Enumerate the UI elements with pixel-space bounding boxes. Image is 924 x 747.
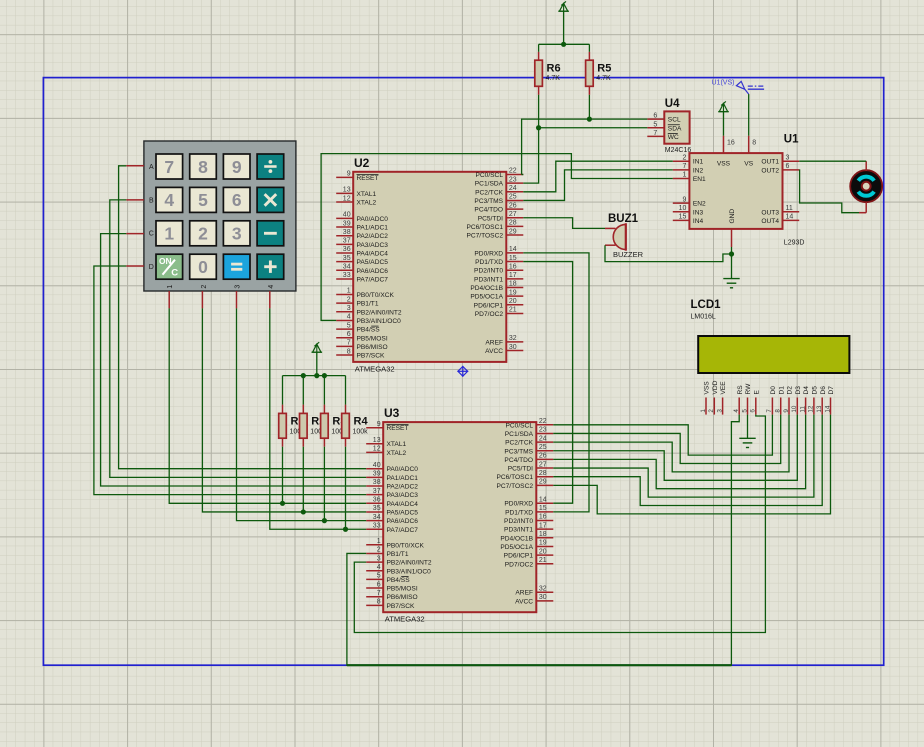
U3 pin 13 (XTAL1) (366, 437, 406, 448)
svg-text:VS: VS (744, 161, 753, 168)
svg-text:12: 12 (808, 405, 815, 413)
IC U2 ATMEGA32 body (353, 156, 506, 374)
U2 pin 37 (PA3/ADC3) (336, 238, 388, 249)
U3 pin 39 (PA1/ADC1) (366, 471, 418, 482)
svg-text:37: 37 (343, 238, 351, 245)
U3 pin 18 (PD4/OC1B) (500, 531, 553, 542)
svg-text:14: 14 (786, 214, 794, 221)
junction node (563.6,44.3) (561, 42, 566, 47)
U4 pin 7 (WC) (647, 130, 679, 141)
svg-text:7: 7 (682, 163, 686, 170)
keypad key 2 (190, 221, 217, 246)
U2 pin 34 (PA6/ADC6) (336, 264, 388, 275)
LCD1 pin 14 (D7) (824, 386, 835, 415)
svg-text:10: 10 (679, 205, 687, 212)
svg-text:OUT1: OUT1 (761, 159, 779, 166)
svg-text:BUZ1: BUZ1 (608, 213, 639, 225)
svg-text:32: 32 (539, 585, 547, 592)
svg-text:10: 10 (791, 405, 798, 413)
LCD1 pin 2 (VDD) (708, 380, 719, 414)
svg-text:PB2/AIN0/INT2: PB2/AIN0/INT2 (387, 560, 432, 567)
U3 pin 32 (AREF) (515, 585, 553, 596)
svg-text:PC5/TDI: PC5/TDI (478, 215, 503, 222)
wire: keypad row A to U3 PA0 (119, 166, 367, 469)
svg-text:RESET: RESET (387, 425, 409, 432)
wire: U2 PD0/RXD to U3 PD1/TXD (523, 253, 589, 512)
svg-text:IN3: IN3 (693, 209, 704, 216)
svg-text:U4: U4 (665, 98, 680, 110)
LCD1 pin 5 (RW) (741, 383, 752, 415)
svg-text:VDD: VDD (712, 380, 719, 394)
keypad row pin stubs (left) (126, 166, 144, 266)
wire: BUZ1 to ground junction (605, 245, 732, 261)
svg-text:SCL: SCL (668, 117, 681, 124)
svg-text:6: 6 (786, 163, 790, 170)
svg-text:1: 1 (164, 224, 174, 244)
svg-text:RS: RS (737, 385, 744, 395)
svg-text:PA2/ADC2: PA2/ADC2 (387, 484, 419, 491)
origin marker (blue) below U2 (457, 366, 468, 377)
U3 pin 21 (PD7/OC2) (505, 557, 554, 568)
wire: keypad row D to U3 PA3 (94, 266, 366, 495)
LCD1 pin 6 (E) (750, 390, 761, 415)
svg-text:LCD1: LCD1 (691, 299, 722, 311)
svg-text:6: 6 (653, 113, 657, 120)
svg-text:VSS: VSS (717, 161, 731, 168)
U2 pin 33 (PA7/ADC7) (336, 272, 388, 283)
U2 pin 25 (PC3/TMS) (474, 194, 523, 205)
svg-text:7: 7 (653, 130, 657, 137)
svg-text:PA5/ADC5: PA5/ADC5 (357, 259, 389, 266)
svg-text:3: 3 (377, 555, 381, 562)
U2 pin 6 (PB5/MOSI) (336, 331, 388, 342)
svg-text:15: 15 (539, 505, 547, 512)
svg-text:D1: D1 (778, 386, 785, 395)
U2 pin 30 (AVCC) (485, 344, 523, 355)
svg-text:37: 37 (373, 488, 381, 495)
U3 pin 23 (PC1/SDA) (505, 427, 554, 438)
keypad key + (257, 254, 284, 279)
svg-text:C: C (149, 231, 154, 238)
svg-text:27: 27 (509, 211, 517, 218)
motor pin stubs (859, 161, 866, 213)
U2 pin 14 (PD0/RXD) (474, 246, 523, 257)
svg-text:8: 8 (752, 140, 756, 147)
svg-text:25: 25 (509, 194, 517, 201)
U2 pin 39 (PA1/ADC1) (336, 220, 388, 231)
svg-text:PA1/ADC1: PA1/ADC1 (357, 225, 389, 232)
svg-text:35: 35 (343, 255, 351, 262)
svg-text:PB1/T1: PB1/T1 (387, 551, 409, 558)
svg-text:PB3/AIN1/OC0: PB3/AIN1/OC0 (387, 568, 432, 575)
U3 pin 25 (PC3/TMS) (504, 444, 553, 455)
svg-text:40: 40 (343, 212, 351, 219)
svg-text:U2: U2 (354, 156, 370, 170)
svg-text:PA7/ADC7: PA7/ADC7 (357, 276, 389, 283)
U1 pin 6 (OUT2) (761, 163, 799, 174)
svg-text:26: 26 (509, 202, 517, 209)
U2 pin 28 (PC6/TOSC1) (466, 220, 523, 231)
svg-text:26: 26 (539, 453, 547, 460)
wire: keypad row B to U3 PA1 (110, 200, 366, 477)
U2 pin 3 (PB2/AIN0/INT2) (336, 305, 402, 316)
svg-text:PB7/SCK: PB7/SCK (357, 353, 385, 360)
svg-text:D2: D2 (787, 386, 794, 395)
U3 pin 6 (PB5/MOSI) (366, 581, 418, 592)
junction node (324.4,520.6) (322, 518, 327, 523)
U3 pin 14 (PD0/RXD) (504, 496, 553, 507)
wire: U1 OUT1 to motor (799, 160, 866, 162)
svg-text:13: 13 (816, 405, 823, 413)
svg-text:U3: U3 (384, 406, 400, 420)
svg-text:PD1/TXD: PD1/TXD (475, 259, 503, 266)
svg-text:R6: R6 (547, 62, 561, 74)
svg-text:17: 17 (509, 272, 517, 279)
R2 pin stubs (302, 405, 304, 447)
svg-text:13: 13 (343, 187, 351, 194)
keypad key 7 (156, 154, 183, 179)
svg-text:PB4/SS: PB4/SS (387, 577, 411, 584)
svg-text:36: 36 (343, 246, 351, 253)
wire: U2 PC3 to U1 IN2 (523, 170, 673, 201)
wire: U2 PC2 to U1 IN1 (523, 161, 673, 192)
junction node (282.5,503.30000000000007) (280, 501, 285, 506)
svg-text:4: 4 (164, 190, 174, 210)
svg-text:PA1/ADC1: PA1/ADC1 (387, 475, 419, 482)
svg-text:PA3/ADC3: PA3/ADC3 (357, 242, 389, 249)
junction node (731.5,254.0) (729, 251, 734, 256)
U1 pin 10 (IN3) (673, 205, 704, 216)
svg-text:9: 9 (377, 421, 381, 428)
motor (on U1 OUT1/OUT2) (850, 170, 882, 202)
U3 pin 19 (PD5/OC1A) (500, 540, 553, 551)
ground symbol (LCD RW) (739, 438, 755, 447)
svg-text:XTAL1: XTAL1 (387, 441, 407, 448)
svg-text:24: 24 (509, 185, 517, 192)
svg-text:3: 3 (716, 409, 723, 413)
svg-text:36: 36 (373, 497, 381, 504)
U3 pin 27 (PC5/TDI) (508, 461, 554, 472)
junction node (589.4,119.1) (587, 117, 592, 122)
keypad key 6 (223, 187, 250, 212)
svg-text:2: 2 (682, 154, 686, 161)
svg-text:3: 3 (232, 224, 242, 244)
R5 pin stubs (588, 52, 590, 95)
svg-text:D6: D6 (820, 386, 827, 395)
U2 pin 5 (PB4/SS) (336, 322, 380, 333)
svg-text:ATMEGA32: ATMEGA32 (385, 615, 425, 624)
svg-text:24: 24 (539, 435, 547, 442)
keypad KP1 panel (144, 141, 296, 291)
U1 pin 16 (VSS) (717, 136, 735, 168)
U3 pin 36 (PA4/ADC4) (366, 497, 418, 508)
U2 pin 4 (PB3/AIN1/OC0) (336, 314, 401, 325)
U3 pin 15 (PD1/TXD) (505, 505, 553, 516)
svg-text:PC0/SCL: PC0/SCL (476, 172, 504, 179)
U3 pin 3 (PB2/AIN0/INT2) (366, 555, 432, 566)
svg-text:4: 4 (733, 409, 740, 413)
svg-text:8: 8 (775, 409, 782, 413)
svg-text:PD5/OC1A: PD5/OC1A (500, 544, 533, 551)
wire: U3 PC3 to LCD D3 (553, 415, 797, 481)
wire: U3 PC6 to LCD D6 (553, 415, 822, 506)
resistor R4 (100k) (342, 413, 369, 438)
svg-text:XTAL2: XTAL2 (387, 450, 407, 457)
svg-text:34: 34 (373, 514, 381, 521)
keypad key 9 (223, 154, 250, 179)
svg-text:3: 3 (347, 305, 351, 312)
svg-text:PA6/ADC6: PA6/ADC6 (387, 518, 419, 525)
svg-text:6: 6 (750, 409, 757, 413)
U3 pin 2 (PB1/T1) (366, 547, 409, 558)
svg-text:39: 39 (373, 471, 381, 478)
U1 pin 15 (IN4) (673, 214, 704, 225)
U2 pin 18 (PD4/OC1B) (470, 281, 523, 292)
keypad key ON/C (156, 254, 183, 279)
svg-text:28: 28 (539, 470, 547, 477)
svg-text:PD2/INT0: PD2/INT0 (504, 518, 533, 525)
svg-text:20: 20 (509, 298, 517, 305)
U1 pin 3 (OUT1) (761, 154, 799, 165)
svg-text:SDA: SDA (668, 125, 682, 132)
wire: U2 PC5/TDI to BUZ1 (523, 218, 605, 229)
svg-text:PD6/ICP1: PD6/ICP1 (474, 302, 504, 309)
U2 pin 7 (PB6/MISO) (336, 340, 387, 351)
keypad key 8 (190, 154, 217, 179)
svg-text:EN1: EN1 (693, 176, 706, 183)
wire: U3 PC5 to LCD D5 (553, 415, 814, 498)
svg-text:PB6/MISO: PB6/MISO (357, 344, 388, 351)
svg-text:7: 7 (347, 340, 351, 347)
svg-text:PC5/TDI: PC5/TDI (508, 466, 533, 473)
svg-text:100k: 100k (353, 428, 369, 435)
svg-text:5: 5 (377, 573, 381, 580)
svg-text:XTAL1: XTAL1 (357, 191, 377, 198)
svg-text:40: 40 (373, 462, 381, 469)
svg-text:18: 18 (509, 281, 517, 288)
svg-text:PC2/TCK: PC2/TCK (475, 189, 503, 196)
svg-text:PA3/ADC3: PA3/ADC3 (387, 492, 419, 499)
svg-text:25: 25 (539, 444, 547, 451)
svg-text:PC7/TOSC2: PC7/TOSC2 (496, 483, 533, 490)
U2 pin 8 (PB7/SCK) (336, 348, 385, 359)
wire: R3 bottom to column net (323, 447, 325, 521)
svg-text:ATMEGA32: ATMEGA32 (355, 364, 395, 373)
svg-text:AREF: AREF (515, 590, 533, 597)
LCD1 pin 4 (RS) (733, 385, 744, 415)
U3 pin 33 (PA7/ADC7) (366, 522, 418, 533)
power symbol (top, above R5/R6) (558, 1, 569, 44)
svg-text:2: 2 (708, 409, 715, 413)
wire: R1 bottom to column net (282, 447, 284, 504)
svg-text:15: 15 (509, 255, 517, 262)
LCD1 pin 11 (D4) (799, 386, 810, 415)
svg-text:7: 7 (164, 157, 174, 177)
svg-text:1: 1 (377, 538, 381, 545)
svg-text:14: 14 (539, 496, 547, 503)
svg-text:14: 14 (509, 246, 517, 253)
U2 pin 24 (PC2/TCK) (475, 185, 523, 196)
U2 pin 16 (PD2/INT0) (474, 263, 523, 274)
LCD1 pin 10 (D3) (791, 386, 802, 415)
svg-text:29: 29 (509, 228, 517, 235)
junction node (303.3,375.6) (301, 373, 306, 378)
wire: keypad column 1 to U3 PA4 (169, 308, 366, 503)
U2 pin 27 (PC5/TDI) (478, 211, 524, 222)
svg-text:PA0/ADC0: PA0/ADC0 (357, 216, 389, 223)
svg-text:2: 2 (377, 547, 381, 554)
svg-text:E: E (753, 390, 760, 395)
LCD1 pin 12 (D5) (808, 386, 819, 415)
svg-text:16: 16 (727, 140, 735, 147)
R3 pin stubs (323, 405, 325, 447)
U3 pin 24 (PC2/TCK) (505, 435, 553, 446)
LCD1 pin 3 (VEE) (716, 381, 727, 415)
svg-text:6: 6 (347, 331, 351, 338)
IC U1 L293D body (689, 134, 804, 247)
U2 pin 23 (PC1/SDA) (475, 176, 524, 187)
svg-text:11: 11 (786, 205, 793, 212)
U3 pin 28 (PC6/TOSC1) (496, 470, 553, 481)
U1 GND pin (bottom) (729, 209, 736, 247)
svg-text:PB3/AIN1/OC0: PB3/AIN1/OC0 (357, 318, 402, 325)
svg-text:VEE: VEE (720, 381, 727, 395)
svg-text:14: 14 (824, 405, 831, 413)
U3 pin 20 (PD6/ICP1) (504, 548, 554, 559)
svg-text:AREF: AREF (485, 339, 503, 346)
U3 pin 29 (PC7/TOSC2) (496, 479, 553, 490)
svg-text:PB2/AIN0/INT2: PB2/AIN0/INT2 (357, 309, 402, 316)
LCD1 pin 9 (D2) (783, 386, 794, 415)
ground symbol (U1 GND / buzzer) (723, 279, 739, 288)
U2 pin 20 (PD6/ICP1) (474, 298, 524, 309)
svg-text:PD0/RXD: PD0/RXD (504, 501, 533, 508)
svg-text:9: 9 (347, 171, 351, 178)
svg-text:PA0/ADC0: PA0/ADC0 (387, 466, 419, 473)
U1 pin 14 (OUT4) (761, 214, 799, 225)
svg-text:2: 2 (201, 285, 208, 289)
svg-text:23: 23 (539, 427, 547, 434)
U2 pin 13 (XTAL1) (336, 187, 376, 198)
svg-text:PC1/SDA: PC1/SDA (475, 181, 504, 188)
U2 pin 36 (PA4/ADC4) (336, 246, 388, 257)
junction node (303.3,511.95000000000005) (301, 509, 306, 514)
wire: R5 top vertical (588, 44, 590, 52)
svg-text:11: 11 (799, 406, 806, 413)
U2 pin 40 (PA0/ADC0) (336, 212, 388, 223)
U4 pin 5 (SDA) (647, 121, 682, 132)
wire: R5 bottom to SCL (588, 95, 590, 119)
svg-text:39: 39 (343, 220, 351, 227)
R6 pin stubs (538, 52, 540, 95)
svg-text:PD2/INT0: PD2/INT0 (474, 268, 503, 275)
svg-text:XTAL2: XTAL2 (357, 200, 377, 207)
wire: U1 GND to ground (731, 247, 733, 279)
keypad row labels A-D (149, 164, 154, 271)
U1 pin 1 (EN1) (673, 172, 706, 183)
svg-text:4: 4 (377, 564, 381, 571)
U1 pin 7 (IN2) (673, 163, 704, 174)
svg-text:8: 8 (347, 348, 351, 355)
U2 pin 12 (XTAL2) (336, 195, 376, 206)
wire: power rail to R6/R5 tops (539, 43, 590, 45)
resistor R5 (4.7K) (586, 60, 612, 86)
svg-text:21: 21 (509, 307, 517, 314)
svg-text:1: 1 (682, 172, 686, 179)
power symbol (R1-R4 bus) (312, 342, 323, 375)
svg-text:35: 35 (373, 505, 381, 512)
svg-text:29: 29 (539, 479, 547, 486)
svg-text:WC: WC (668, 134, 679, 141)
keypad key = (223, 254, 250, 279)
svg-text:3: 3 (786, 154, 790, 161)
svg-text:12: 12 (373, 446, 381, 453)
wire: U3 PB1 to LCD RS (347, 415, 739, 666)
svg-text:PB4/SS: PB4/SS (357, 327, 381, 334)
svg-text:1: 1 (167, 285, 174, 289)
svg-text:PD7/OC2: PD7/OC2 (505, 561, 534, 568)
U3 pin 22 (PC0/SCL) (506, 418, 554, 429)
svg-text:33: 33 (373, 522, 381, 529)
keypad key 3 (223, 221, 250, 246)
svg-text:PB6/MISO: PB6/MISO (387, 594, 418, 601)
svg-text:2: 2 (347, 296, 351, 303)
svg-text:D4: D4 (803, 386, 810, 395)
svg-text:IN2: IN2 (693, 167, 704, 174)
svg-text:PD0/RXD: PD0/RXD (474, 250, 503, 257)
U3 pin 16 (PD2/INT0) (504, 514, 553, 525)
svg-text:AVCC: AVCC (485, 348, 503, 355)
U2 pin 19 (PD5/OC1A) (470, 289, 523, 300)
U3 pin 38 (PA2/ADC2) (366, 479, 418, 490)
wire: R4 top to bus (345, 376, 347, 405)
svg-text:PA7/ADC7: PA7/ADC7 (387, 527, 419, 534)
junction node (316.8,375.6) (314, 373, 319, 378)
svg-text:VSS: VSS (704, 381, 711, 395)
svg-text:5: 5 (741, 409, 748, 413)
keypad key 1 (156, 221, 183, 246)
svg-text:OUT3: OUT3 (761, 209, 779, 216)
U3 pin 34 (PA6/ADC6) (366, 514, 418, 525)
svg-text:22: 22 (509, 168, 517, 175)
wire: VS flag to U1 pin 8 (748, 94, 750, 136)
svg-text:PC3/TMS: PC3/TMS (504, 448, 533, 455)
svg-text:PC1/SDA: PC1/SDA (505, 431, 534, 438)
BUZ1 pin stubs (605, 228, 616, 245)
svg-text:30: 30 (509, 344, 517, 351)
svg-text:BUZZER: BUZZER (613, 250, 644, 259)
U1 pin 9 (EN2) (673, 196, 706, 207)
svg-text:AVCC: AVCC (515, 598, 533, 605)
svg-text:PC4/TDO: PC4/TDO (504, 457, 533, 464)
U2 pin 9 (RESET) (336, 171, 378, 182)
wire: keypad column 2 to U3 PA5 (202, 308, 366, 512)
junction node (345.5,529.25) (343, 527, 348, 532)
svg-text:17: 17 (539, 522, 547, 529)
U2 pin 32 (AREF) (485, 335, 523, 346)
wire: U3 PC7 to LCD D7 (553, 415, 830, 514)
wire: U3 PB2 to LCD E (354, 415, 765, 633)
svg-text:9: 9 (232, 157, 242, 177)
U3 pin 12 (XTAL2) (366, 446, 406, 457)
U1 pin 8 (VS) (744, 136, 756, 168)
U2 pin 22 (PC0/SCL) (476, 168, 524, 179)
U2 pin 17 (PD3/INT1) (474, 272, 523, 283)
svg-text:IN4: IN4 (693, 218, 704, 225)
svg-text:PD4/OC1B: PD4/OC1B (470, 285, 503, 292)
U3 pin 8 (PB7/SCK) (366, 599, 415, 610)
wire: R3 top to bus (323, 376, 325, 405)
